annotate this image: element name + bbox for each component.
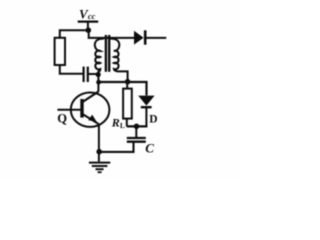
ground bar 4: [98, 171, 102, 173]
wire bottom rail RL to D2: [127, 125, 148, 127]
wire cap C bottom stub: [99, 142, 134, 152]
wire cap C top stub: [135, 126, 137, 137]
svg-text:D: D: [149, 113, 157, 125]
diode D1 cathode bar: [144, 30, 147, 44]
diode D1 triangle: [134, 31, 144, 45]
wire collector vertical: [97, 71, 99, 92]
svg-text:C: C: [145, 141, 154, 156]
Vcc label: [79, 7, 96, 22]
transistor Q1 emitter arrow: [88, 115, 96, 122]
transformer secondary winding: [110, 39, 119, 72]
transistor Q1 emitter lead: [83, 114, 99, 124]
node RL top junction dot: [125, 79, 131, 85]
transformer primary winding: [95, 39, 104, 72]
wire RL top stub: [126, 82, 128, 89]
node base-cap junction dot: [96, 72, 101, 77]
node cap C top junction dot: [134, 124, 140, 130]
svg-text:R: R: [111, 116, 120, 130]
label RL: [111, 116, 125, 130]
resistor R1: [55, 38, 65, 65]
diode D2 cathode bar: [141, 106, 152, 108]
capacitor C bottom plate: [127, 141, 146, 143]
ground bar 2: [92, 165, 108, 167]
svg-text:L: L: [120, 121, 125, 130]
ground bar 1: [89, 162, 110, 164]
transformer core bar 2: [108, 35, 110, 72]
wire secondary bottom to RL node: [118, 71, 128, 82]
wire Vcc stub: [87, 22, 89, 30]
transistor Q1 base lead: [57, 109, 80, 111]
wire cap to collector node: [88, 73, 99, 75]
wire collector rail to D2: [98, 82, 146, 95]
wire Vcc dot down to top rail: [89, 29, 135, 38]
transistor Q1 base bar: [80, 99, 83, 118]
capacitor C1 right plate: [87, 67, 89, 82]
capacitor C1 left plate: [82, 67, 84, 82]
ground bar 3: [96, 168, 104, 170]
wire emitter vertical: [98, 124, 100, 161]
transistor Q1 circle: [71, 93, 110, 127]
node collector rail junction dot: [96, 80, 101, 85]
capacitor C top plate: [127, 137, 146, 139]
svg-text:Q: Q: [57, 112, 67, 126]
transformer core bar 1: [105, 35, 107, 72]
diode D2 triangle: [138, 96, 154, 106]
Vcc power rail bar: [78, 21, 99, 23]
node Vcc junction dot: [86, 27, 92, 33]
wire R1 bottom to cap: [60, 65, 83, 74]
wire D1 to output end: [145, 37, 166, 39]
node emitter junction dot: [96, 149, 102, 155]
svg-text:cc: cc: [88, 11, 96, 21]
wire D2 bottom stub: [145, 107, 147, 126]
resistor RL: [123, 89, 132, 119]
transistor Q1 collector lead: [83, 92, 99, 102]
wire Vcc to R1 top: [60, 30, 89, 38]
wire RL bottom stub: [126, 119, 128, 127]
